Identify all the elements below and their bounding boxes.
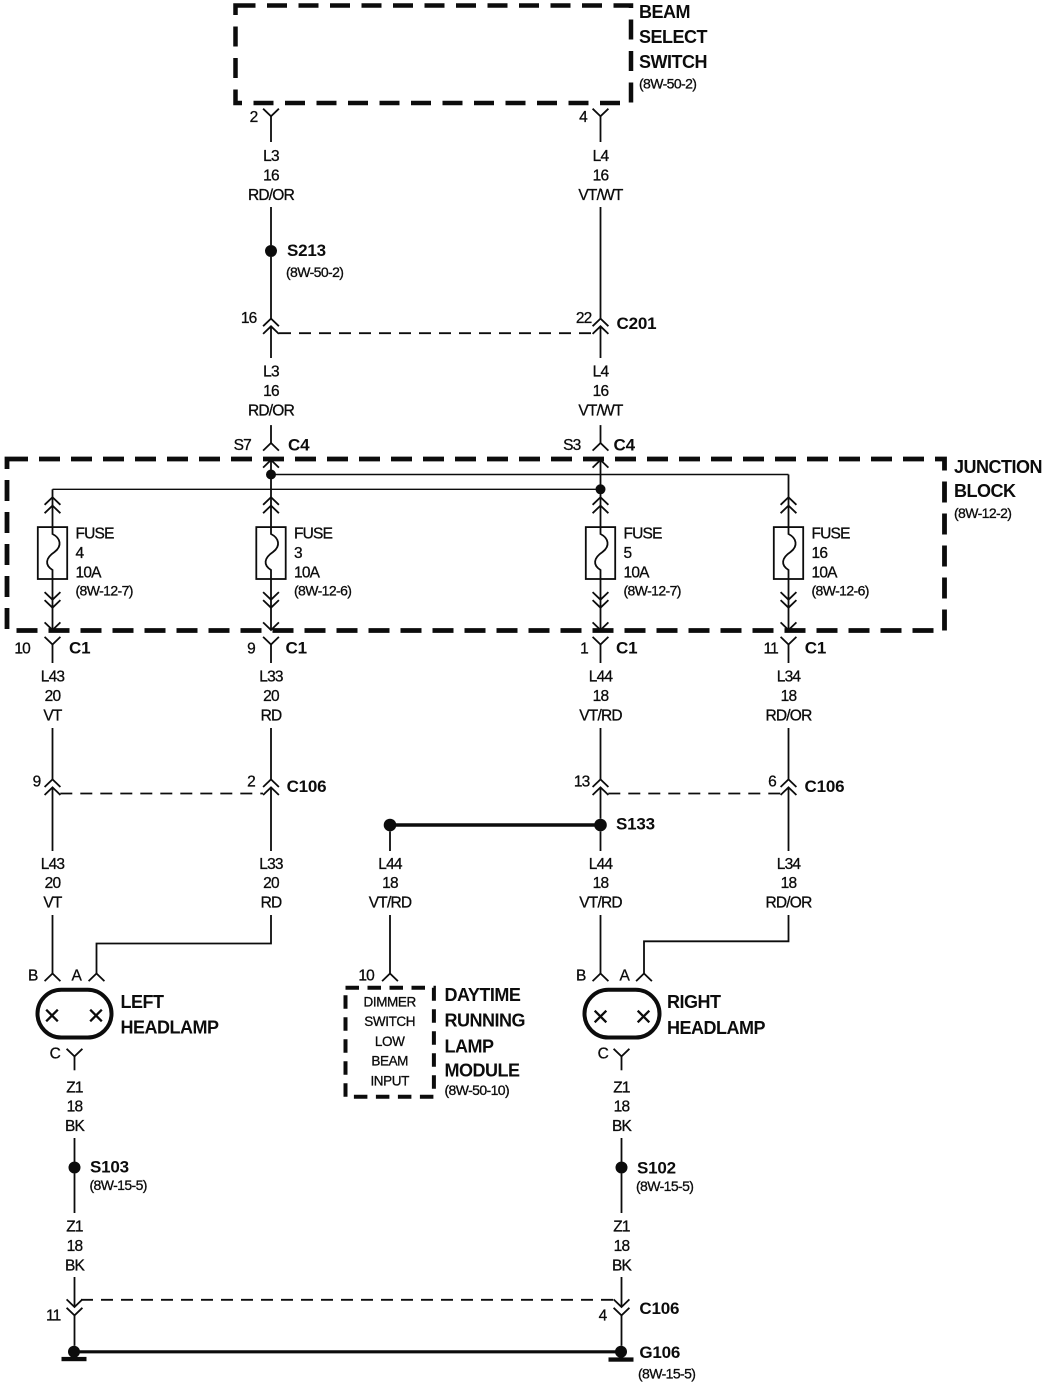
svg-text:4: 4 [599,1307,608,1324]
svg-text:VT/RD: VT/RD [369,895,412,912]
svg-text:16: 16 [241,310,257,327]
svg-text:(8W-15-5): (8W-15-5) [90,1177,147,1193]
wire L43 20 VT (C1 to C106 pin 9) [41,669,65,780]
svg-text:RD/OR: RD/OR [766,895,813,912]
svg-text:L33: L33 [259,856,283,873]
connector C4 cavity S3 [563,435,635,467]
splice S213 [265,241,343,280]
wire Z1 18 BK (left headlamp C to S103) [65,1079,86,1161]
svg-text:C1: C1 [286,638,307,657]
left headlamp pin A [71,968,104,985]
wire (C106 pin 2 to left headlamp pin A) label L33 20 RD [97,787,283,973]
svg-text:10A: 10A [76,564,103,581]
svg-text:C1: C1 [69,638,90,657]
svg-text:20: 20 [45,875,62,892]
svg-text:BK: BK [612,1258,633,1275]
svg-text:16: 16 [593,168,609,185]
svg-text:10A: 10A [624,564,651,581]
svg-text:VT/RD: VT/RD [579,895,622,912]
svg-text:2: 2 [250,109,258,126]
DRL module pin 10 [358,968,398,985]
svg-text:10A: 10A [294,564,321,581]
svg-text:FUSE: FUSE [624,526,663,543]
svg-text:(8W-12-6): (8W-12-6) [294,583,351,599]
svg-text:VT: VT [43,707,63,724]
wire L3 16 RD/OR (C201 to C4 S7) [248,326,295,443]
svg-text:Z1: Z1 [66,1079,83,1096]
right headlamp pin B [576,968,608,985]
svg-text:RUNNING: RUNNING [445,1010,526,1030]
svg-text:10: 10 [358,968,375,985]
connector C1 pin 10 [14,637,90,663]
svg-text:BK: BK [65,1118,86,1135]
wire Z1 18 BK (S102 to C106 pin 4) [612,1174,633,1308]
svg-text:(8W-12-7): (8W-12-7) [624,583,681,599]
svg-text:BK: BK [612,1118,633,1135]
wire (C106 pin 4 to ground) [621,1315,623,1345]
right headlamp pin A [619,968,651,985]
svg-text:20: 20 [263,875,280,892]
pin 2 of beam select switch [250,109,279,126]
svg-text:C1: C1 [616,638,637,657]
svg-text:S213: S213 [287,241,326,260]
wire Z1 18 BK (right headlamp C to S102) [612,1079,633,1161]
connector C106 bottom dashed link [81,1299,613,1301]
svg-text:A: A [71,968,82,985]
pin 4 of beam select switch [579,109,608,126]
svg-text:BLOCK: BLOCK [954,481,1016,501]
svg-text:16: 16 [263,168,279,185]
wire L44 18 VT/RD (S133 to DRL module pin 10) [369,831,412,973]
svg-text:BEAM: BEAM [639,2,690,22]
svg-text:LAMP: LAMP [445,1036,494,1056]
svg-text:RD: RD [261,707,282,724]
node junction dot under S7 and bus wire to fuse 16 [266,460,789,480]
wire Z1 18 BK (S103 to C106 pin 11) [65,1174,86,1308]
svg-text:9: 9 [33,773,41,790]
svg-text:Z1: Z1 [613,1219,630,1236]
right headlamp pin C [598,1046,630,1071]
fuse 3 10A (8W-12-6) [256,475,351,631]
svg-text:RIGHT: RIGHT [667,992,721,1012]
svg-text:C106: C106 [805,777,845,796]
svg-text:S7: S7 [234,437,252,454]
svg-text:BEAM: BEAM [371,1054,408,1069]
svg-text:10: 10 [14,640,31,657]
svg-text:(8W-15-5): (8W-15-5) [636,1178,693,1194]
svg-text:16: 16 [263,383,279,400]
svg-text:S3: S3 [563,437,581,454]
svg-text:RD/OR: RD/OR [248,402,295,419]
fuse 5 10A (8W-12-7) [586,489,681,630]
svg-text:Z1: Z1 [613,1079,630,1096]
connector C106 pin 9 [33,773,61,795]
connector C106 left dashed link [60,793,263,795]
svg-text:C201: C201 [617,314,657,333]
svg-text:S102: S102 [637,1158,676,1177]
svg-text:11: 11 [764,640,779,657]
beam select switch box [236,2,708,103]
svg-text:SELECT: SELECT [639,27,708,47]
svg-text:HEADLAMP: HEADLAMP [667,1018,765,1038]
svg-text:C4: C4 [288,435,310,454]
splice S103 [69,1158,147,1193]
splice S133 [384,815,655,834]
svg-text:9: 9 [247,640,255,657]
svg-text:S133: S133 [616,815,655,834]
svg-text:A: A [619,968,630,985]
svg-text:18: 18 [614,1099,630,1116]
svg-text:18: 18 [781,688,797,705]
svg-text:18: 18 [781,875,797,892]
connector C201 pin 22 and label [576,310,657,334]
svg-text:Z1: Z1 [66,1219,83,1236]
svg-text:5: 5 [624,545,632,562]
svg-text:C4: C4 [614,435,636,454]
svg-text:C: C [50,1046,61,1063]
svg-text:(8W-12-2): (8W-12-2) [954,505,1011,521]
wire (C106 pin 13 to S133) [600,787,602,818]
daytime running lamp module box [346,985,526,1098]
wire L34 18 RD/OR (C106 pin 6 to right headlamp pin A) [644,787,812,973]
svg-text:G106: G106 [639,1343,680,1362]
svg-text:VT/WT: VT/WT [578,402,624,419]
connector C106 pin 4 (bottom) and label [599,1299,680,1324]
svg-text:B: B [576,968,586,985]
svg-text:11: 11 [46,1307,61,1324]
svg-text:C: C [598,1046,609,1063]
svg-text:C1: C1 [805,638,826,657]
connector C106 pin 2 and label [247,773,326,796]
wire L34 18 RD/OR (C1 to C106 pin 6) [766,669,813,780]
svg-text:INPUT: INPUT [370,1074,409,1089]
svg-text:L4: L4 [593,364,610,381]
connector C201 pin 16 [241,310,279,334]
connector C4 cavity S7 [234,435,310,467]
svg-text:(8W-50-10): (8W-50-10) [445,1082,510,1098]
left headlamp pin B [28,968,60,985]
svg-text:VT/RD: VT/RD [579,707,622,724]
svg-text:DIMMER: DIMMER [364,994,417,1009]
svg-text:L3: L3 [263,364,279,381]
svg-text:RD/OR: RD/OR [248,187,295,204]
svg-text:FUSE: FUSE [294,526,333,543]
svg-text:18: 18 [593,688,609,705]
left headlamp pin C [50,1046,83,1071]
svg-text:L44: L44 [589,669,614,686]
left headlamp [38,990,219,1038]
svg-text:L44: L44 [378,856,403,873]
svg-text:16: 16 [812,545,828,562]
svg-text:MODULE: MODULE [445,1061,520,1081]
svg-text:1: 1 [580,640,588,657]
junction block box [7,457,1042,630]
svg-text:VT/WT: VT/WT [578,187,624,204]
connector C1 pin 1 [580,637,637,663]
svg-text:L33: L33 [259,669,283,686]
right headlamp [585,990,766,1038]
svg-text:L34: L34 [777,669,802,686]
fuse 4 10A (8W-12-7) [38,489,133,630]
svg-text:(8W-15-5): (8W-15-5) [638,1366,695,1382]
svg-text:RD/OR: RD/OR [766,707,813,724]
svg-text:SWITCH: SWITCH [639,52,707,72]
wire L4 16 VT/WT (C201 to C4 S3) [578,326,624,443]
wire L44 18 VT/RD (C1 to C106 pin 13) [579,669,622,780]
connector C106 pin 11 (bottom) [46,1299,82,1324]
svg-text:3: 3 [294,545,302,562]
connector C1 pin 11 [764,637,827,663]
svg-text:18: 18 [614,1238,630,1255]
svg-text:20: 20 [45,688,62,705]
svg-text:10A: 10A [812,564,839,581]
svg-text:HEADLAMP: HEADLAMP [121,1018,219,1038]
svg-text:L44: L44 [589,856,614,873]
wire (C106 pin 11 to ground) [74,1315,76,1345]
ground G106 [62,1343,696,1382]
svg-text:FUSE: FUSE [76,526,115,543]
svg-text:SWITCH: SWITCH [364,1014,415,1029]
svg-text:20: 20 [263,688,280,705]
connector C201 dashed in-line link [279,332,592,334]
svg-text:C106: C106 [287,777,327,796]
wire L33 20 RD (C1 to C106 pin 2) [259,669,283,780]
svg-text:FUSE: FUSE [812,526,851,543]
svg-text:LEFT: LEFT [121,992,164,1012]
wire L3 16 RD/OR (pin 2 to S213) [248,116,295,245]
svg-text:6: 6 [768,773,776,790]
svg-text:DAYTIME: DAYTIME [445,985,521,1005]
fuse 16 10A (8W-12-6) [774,475,869,631]
svg-text:L34: L34 [777,856,802,873]
svg-text:LOW: LOW [375,1034,405,1049]
svg-text:S103: S103 [90,1158,129,1177]
svg-text:22: 22 [576,310,592,327]
svg-text:L43: L43 [41,669,65,686]
svg-text:(8W-12-6): (8W-12-6) [812,583,869,599]
svg-text:18: 18 [67,1099,83,1116]
svg-text:2: 2 [247,773,255,790]
connector C106 pin 6 and label [768,773,844,796]
wire L4 16 VT/WT (pin 4 to C201 pin 22) [578,116,624,318]
svg-text:L43: L43 [41,856,65,873]
svg-text:18: 18 [593,875,609,892]
node junction dot under S3 and bus wire to fuse 4 [53,460,606,494]
svg-text:18: 18 [67,1238,83,1255]
svg-text:VT: VT [43,895,63,912]
svg-text:(8W-50-2): (8W-50-2) [639,76,696,92]
svg-text:L3: L3 [263,148,279,165]
wire L44 18 VT/RD (S133 to right headlamp pin B) [579,831,622,973]
svg-text:BK: BK [65,1258,86,1275]
svg-text:(8W-50-2): (8W-50-2) [286,264,343,280]
svg-text:4: 4 [579,109,588,126]
svg-text:16: 16 [593,383,609,400]
svg-text:(8W-12-7): (8W-12-7) [76,583,133,599]
wire L3 (S213 to C201 pin 16) [270,257,272,319]
svg-text:4: 4 [76,545,85,562]
connector C106 pin 13 [574,773,609,795]
wire (C106 pin 9 to left headlamp pin B) label L43 20 VT [41,787,65,973]
svg-text:L4: L4 [593,148,610,165]
svg-text:13: 13 [574,773,590,790]
connector C106 right dashed link [608,793,780,795]
svg-text:RD: RD [261,895,282,912]
connector C1 pin 9 [247,637,307,663]
svg-text:JUNCTION: JUNCTION [954,457,1042,477]
svg-text:C106: C106 [639,1299,679,1318]
svg-text:B: B [28,968,38,985]
svg-text:18: 18 [382,875,398,892]
splice S102 [616,1158,694,1194]
